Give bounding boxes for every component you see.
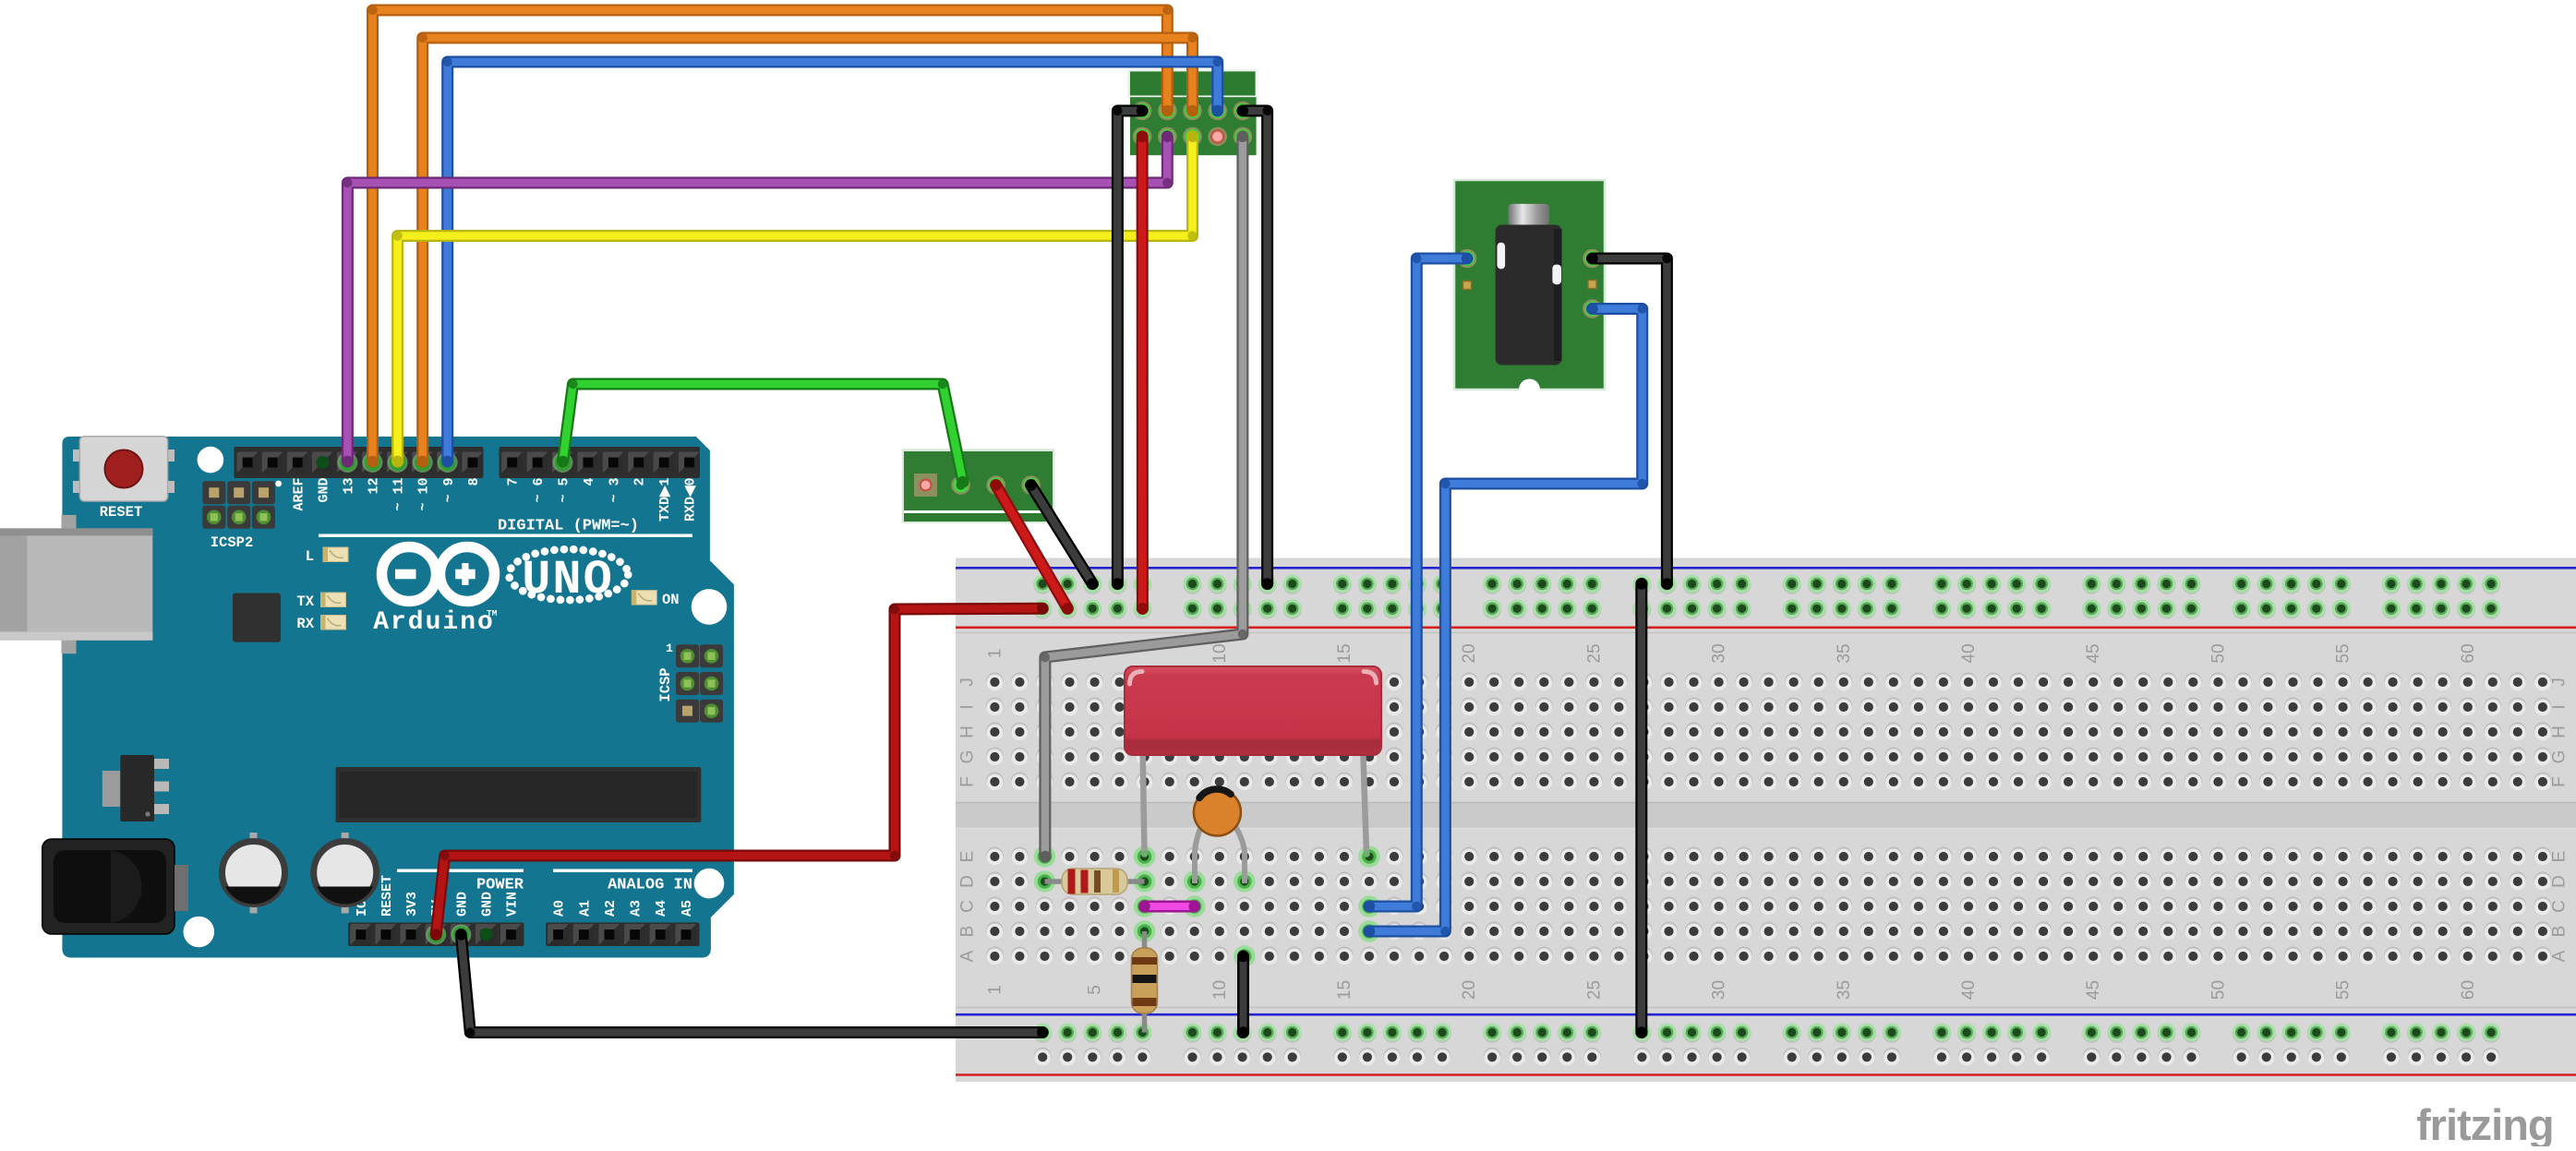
svg-text:A3: A3 [629, 900, 644, 917]
svg-text:fritzing: fritzing [2416, 1100, 2554, 1146]
svg-text:20: 20 [1460, 980, 1479, 1000]
power + analog header strips [348, 923, 700, 947]
svg-text:50: 50 [2209, 980, 2228, 1000]
svg-text:10: 10 [1210, 980, 1230, 1000]
svg-text:40: 40 [1959, 980, 1979, 1000]
svg-text:60: 60 [2459, 980, 2478, 1000]
svg-text:25: 25 [1584, 980, 1604, 1000]
svg-text:~ 6: ~ 6 [531, 478, 547, 503]
power + analog pin labels [355, 869, 695, 917]
svg-text:DIGITAL (PWM=~): DIGITAL (PWM=~) [498, 518, 639, 535]
svg-text:3V3: 3V3 [404, 892, 420, 917]
connected pin highlights on Arduino [316, 452, 572, 945]
wire: audio jack sleeve to breadboard B16 (blue) [1369, 309, 1643, 932]
DIP socket slot [336, 767, 702, 822]
svg-text:45: 45 [2084, 643, 2103, 663]
svg-text:55: 55 [2334, 980, 2353, 1000]
wire: module pin to breadboard E3 (gray) [1045, 137, 1243, 857]
svg-text:A4: A4 [654, 900, 669, 917]
audio jack module [1454, 180, 1605, 401]
svg-text:13: 13 [342, 478, 357, 495]
breadboard [956, 558, 2576, 1083]
ceramic capacitor C1 [1194, 789, 1245, 884]
svg-text:10: 10 [1210, 643, 1230, 663]
svg-text:35: 35 [1835, 980, 1854, 1000]
piezo buzzer (red box) legs [1141, 743, 1370, 857]
svg-text:TXD▶1: TXD▶1 [657, 478, 673, 522]
svg-text:TX: TX [296, 593, 314, 610]
svg-text:~ 10: ~ 10 [416, 478, 432, 511]
svg-text:2: 2 [632, 478, 648, 486]
svg-text:F: F [2550, 776, 2570, 787]
wire: module pin to 5V rail (red) [1137, 137, 1149, 608]
svg-text:A5: A5 [680, 900, 695, 917]
wire: mid module to 5V rail (red) [996, 486, 1068, 609]
electrolytic capacitors [223, 833, 377, 914]
svg-text:RX: RX [296, 616, 314, 632]
Arduino infinity logo [382, 547, 495, 602]
svg-text:TM: TM [487, 608, 498, 618]
breadboard column number labels [985, 643, 2477, 1000]
svg-text:GND: GND [454, 892, 470, 917]
piezo buzzer (red box) body [1125, 666, 1381, 755]
mounting holes [184, 447, 728, 948]
Arduino wordmark [373, 608, 498, 637]
svg-text:A: A [958, 950, 978, 962]
wire: Arduino D10 to module (orange) [423, 38, 1193, 462]
svg-text:50: 50 [2209, 643, 2228, 663]
breadboard main grid holes [986, 672, 2551, 966]
breadboard power rail holes [1033, 575, 2500, 1066]
svg-text:45: 45 [2084, 980, 2103, 1000]
svg-text:H: H [2550, 725, 2570, 738]
svg-text:35: 35 [1835, 643, 1854, 663]
svg-text:ICSP2: ICSP2 [211, 534, 254, 551]
DC power jack [42, 839, 188, 934]
wire: Arduino 5V to breadboard + rail (dark red) [436, 608, 1042, 934]
svg-text:RESET: RESET [379, 875, 395, 917]
svg-text:ON: ON [662, 592, 680, 608]
wire: Arduino D5 to mid module (green) [563, 384, 964, 482]
Arduino Uno board U1 [62, 437, 734, 958]
svg-text:A0: A0 [552, 900, 568, 917]
svg-text:D: D [958, 875, 978, 888]
svg-text:60: 60 [2459, 643, 2478, 663]
UNO dotted badge [509, 549, 628, 607]
svg-text:F: F [958, 776, 978, 787]
svg-text:POWER: POWER [476, 877, 524, 894]
svg-text:20: 20 [1460, 643, 1479, 663]
wire: Arduino D13 to module (purple) [347, 137, 1167, 462]
ICSP header [657, 641, 723, 723]
black jumper wire A11 to ground rail [1237, 956, 1249, 1033]
svg-text:L: L [306, 548, 314, 565]
svg-text:1: 1 [985, 649, 1005, 659]
svg-text:B: B [958, 926, 978, 938]
svg-text:15: 15 [1335, 980, 1354, 1000]
svg-text:55: 55 [2334, 643, 2353, 663]
svg-text:30: 30 [1710, 980, 1729, 1000]
svg-text:G: G [2550, 750, 2570, 764]
svg-text:1: 1 [985, 985, 1005, 995]
svg-text:A2: A2 [603, 900, 619, 917]
svg-text:VIN: VIN [505, 892, 521, 917]
ICSP2 header [202, 481, 275, 551]
svg-text:E: E [958, 851, 978, 863]
svg-text:7: 7 [506, 478, 522, 486]
top breakout module (5-pin header board) [1128, 70, 1257, 155]
wire: Arduino D9 to module (blue) [448, 62, 1218, 462]
L TX RX ON leds [296, 547, 679, 632]
svg-text:GND: GND [479, 892, 495, 917]
USB connector [0, 515, 152, 653]
svg-text:AREF: AREF [291, 478, 307, 511]
digital header strips [235, 447, 701, 478]
svg-text:I: I [958, 704, 978, 709]
breadboard row letter labels [958, 677, 2570, 962]
wire: audio jack to ground rail (black) [1593, 258, 1667, 584]
svg-text:15: 15 [1335, 643, 1354, 663]
svg-text:UNO: UNO [522, 553, 614, 607]
svg-text:A1: A1 [577, 900, 593, 917]
mid breakout module (4-pad sensor board) [903, 450, 1053, 522]
wire: module pin to ground rail right (black) [1243, 111, 1268, 584]
svg-text:RESET: RESET [100, 504, 143, 521]
svg-text:~ 11: ~ 11 [391, 478, 407, 511]
svg-text:H: H [958, 725, 978, 738]
svg-text:8: 8 [466, 478, 482, 486]
voltage regulator [102, 755, 169, 821]
svg-text:12: 12 [367, 478, 382, 495]
svg-text:ANALOG IN: ANALOG IN [608, 877, 692, 894]
svg-text:40: 40 [1959, 643, 1979, 663]
svg-text:4: 4 [582, 478, 597, 486]
svg-text:C: C [958, 900, 978, 913]
wire: Arduino D12 to module (orange) [373, 10, 1168, 462]
svg-text:30: 30 [1710, 643, 1729, 663]
svg-text:Arduino: Arduino [373, 608, 495, 637]
wire: Arduino D11 to module (yellow) [398, 137, 1193, 462]
svg-text:GND: GND [316, 478, 331, 503]
svg-text:25: 25 [1584, 643, 1604, 663]
resistor R1 220 ohm (horizontal) [1045, 869, 1145, 894]
wire: top ground rail to bottom ground rail (black) [1635, 584, 1647, 1033]
wire: mid module to ground rail (black) [1031, 486, 1093, 584]
wire: audio jack tip to breadboard C16 (blue) [1369, 258, 1467, 906]
ATmega QFP chip [233, 593, 281, 642]
svg-text:~ 5: ~ 5 [557, 478, 572, 503]
svg-text:ICSP: ICSP [657, 667, 674, 701]
svg-text:~ 3: ~ 3 [607, 478, 622, 503]
wire: module pin to ground rail left (black) [1117, 111, 1142, 584]
digital pin labels [275, 478, 698, 537]
svg-text:A: A [2550, 950, 2570, 962]
svg-text:G: G [958, 750, 978, 764]
svg-text:5: 5 [1086, 985, 1105, 995]
svg-text:B: B [2550, 926, 2570, 938]
resistor R2 10k (vertical) [1132, 931, 1158, 1033]
svg-text:RXD◀0: RXD◀0 [683, 478, 699, 522]
svg-text:I: I [2550, 704, 2570, 709]
pink jumper wire C7-C9 [1145, 901, 1195, 913]
svg-text:D: D [2550, 875, 2570, 888]
svg-text:1: 1 [666, 641, 673, 655]
svg-text:E: E [2550, 851, 2570, 863]
svg-text:C: C [2550, 900, 2570, 913]
wire: Arduino GND to breadboard - rail (black) [461, 935, 1042, 1033]
svg-text:J: J [958, 677, 978, 687]
svg-text:J: J [2550, 677, 2570, 687]
reset button [73, 437, 175, 521]
svg-text:~ 9: ~ 9 [441, 478, 457, 503]
